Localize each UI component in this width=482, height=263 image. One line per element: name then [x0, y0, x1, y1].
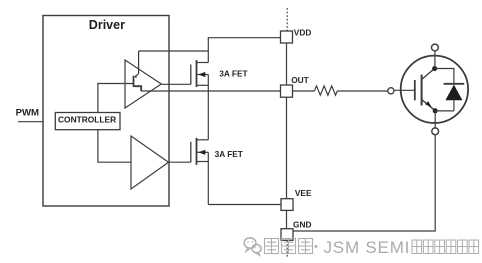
node gate terminal circle	[388, 88, 394, 94]
node OUT terminal square	[281, 85, 293, 97]
watermark text 杰盛微半导体 (glyph blocks)	[412, 240, 479, 254]
wire PWM input	[18, 121, 43, 123]
svg-text:Driver: Driver	[89, 18, 125, 32]
transistor Q1 (top 3A FET)	[191, 60, 209, 91]
svg-text:VDD: VDD	[294, 28, 312, 38]
wire OUT node to resistor	[293, 90, 315, 92]
junction dot collector	[432, 66, 437, 71]
wire emitter terminal to GND node	[293, 135, 435, 231]
svg-text:CONTROLLER: CONTROLLER	[58, 114, 116, 124]
dashed stub below GND	[286, 240, 288, 258]
wire emitter to bottom terminal	[434, 111, 436, 128]
op-amp buffer A2	[131, 136, 169, 189]
wire supply rail to VDD link	[139, 50, 209, 52]
transistor Q3 (inside buffer A1)	[134, 74, 142, 91]
wire buffer A2 output to Q2 gate	[169, 161, 191, 163]
IGBT emitter diagonal with arrow	[422, 100, 436, 111]
wire OUT to VEE rail segment	[286, 97, 288, 199]
wire VEE to GND rail segment	[286, 210, 288, 228]
dashed stub above VDD	[286, 8, 288, 31]
node emitter terminal circle	[432, 128, 439, 135]
wire OUT rail	[141, 90, 280, 92]
diode D1 (anti-parallel)	[435, 69, 464, 111]
watermark logo	[244, 238, 261, 256]
watermark separator dot	[315, 245, 318, 248]
wire gate terminal to IGBT gate	[394, 89, 414, 91]
wire buffer A1 output to Q1 gate	[161, 83, 191, 85]
svg-text:GND: GND	[293, 220, 311, 230]
node GND terminal square	[281, 229, 293, 241]
wire Q2 drain to OUT rail	[207, 91, 209, 140]
svg-text:VEE: VEE	[295, 188, 312, 198]
svg-text:JSM SEMI: JSM SEMI	[324, 238, 411, 257]
node VDD terminal square	[281, 31, 293, 43]
svg-text:OUT: OUT	[291, 75, 309, 85]
node collector terminal circle	[432, 44, 439, 51]
IGBT gate bar	[414, 80, 416, 100]
controller block U1	[55, 113, 120, 130]
junction dot emitter	[433, 108, 438, 113]
svg-text:3A FET: 3A FET	[215, 149, 243, 159]
IGBT body bar	[421, 75, 423, 106]
wire Q2 source to VEE rail	[207, 152, 209, 204]
svg-text:3A FET: 3A FET	[219, 68, 247, 78]
svg-text:PWM: PWM	[16, 107, 39, 118]
node VEE terminal square	[281, 199, 293, 211]
wire VDD to OUT rail segment	[286, 43, 288, 85]
wire resistor to gate terminal	[337, 90, 388, 92]
driver block outline	[43, 16, 169, 207]
IGBT Q4 outline circle	[401, 56, 468, 123]
wire controller to buffer A2	[98, 130, 131, 163]
watermark text 服务号 (glyph blocks)	[265, 239, 313, 254]
wire VEE rail	[208, 204, 281, 206]
IGBT collector diagonal	[422, 69, 435, 80]
transistor Q2 (bottom 3A FET)	[191, 138, 209, 165]
wire buffer A1 supply drop	[138, 51, 140, 74]
wire Q1 drain to VDD node	[208, 38, 280, 63]
wire collector to top terminal	[434, 51, 436, 69]
wire controller to buffer A1	[98, 84, 133, 113]
resistor R1	[315, 86, 338, 95]
op-amp buffer A1	[125, 60, 161, 108]
